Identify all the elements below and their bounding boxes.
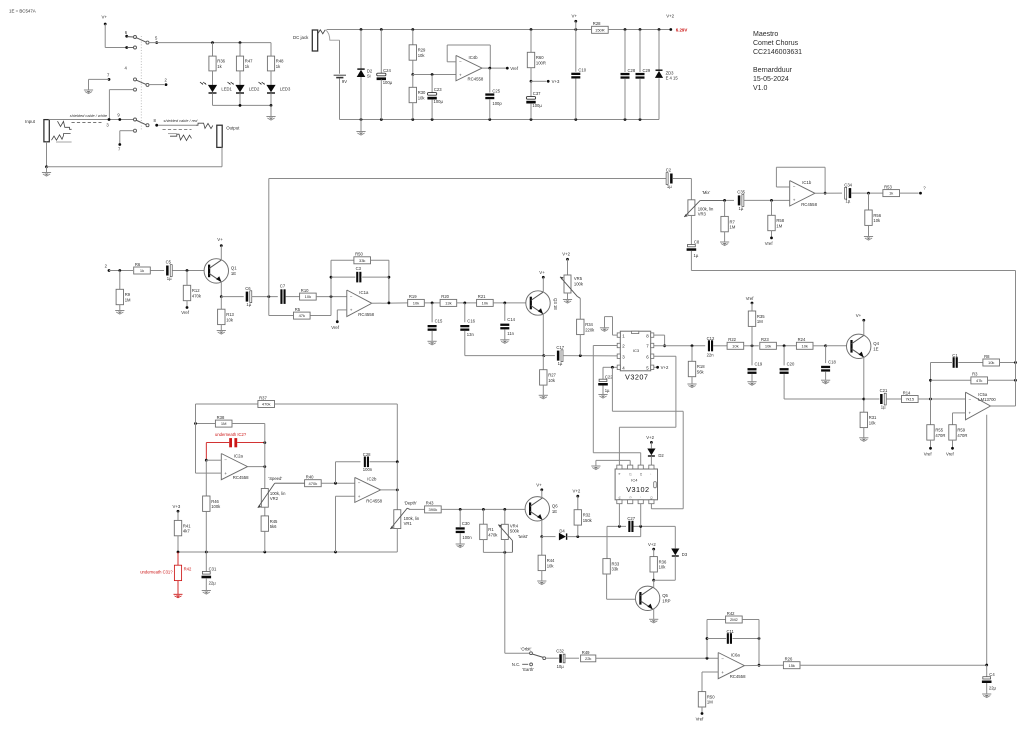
node ? (923, 185, 926, 190)
resistor R22 (727, 337, 744, 349)
wire feedback IC1b (776, 167, 826, 194)
svg-text:→: → (650, 473, 653, 476)
wire (608, 28, 672, 31)
resistor R31 (860, 412, 877, 438)
net V+ Q3 (539, 270, 545, 292)
capacitor C24 (377, 30, 393, 120)
svg-text:22k: 22k (585, 656, 591, 661)
ground (456, 544, 465, 548)
svg-text:9V: 9V (342, 79, 347, 84)
op-amp IC5a (966, 392, 991, 420)
wire pin2 clock (593, 346, 640, 466)
svg-text:100n: 100n (462, 535, 472, 540)
svg-text:+: + (721, 670, 724, 675)
svg-text:10k: 10k (548, 378, 556, 383)
wire fb up (330, 260, 333, 296)
node 8 (154, 118, 159, 126)
wire (886, 398, 901, 400)
ground (720, 242, 729, 246)
svg-text:1µ: 1µ (694, 253, 699, 258)
svg-text:+: + (969, 410, 972, 415)
jack J2 tip contact (196, 123, 213, 128)
ground (687, 384, 696, 388)
svg-text:+: + (350, 308, 353, 313)
resistor R3 (931, 372, 1017, 384)
svg-text:R19: R19 (409, 294, 417, 299)
svg-text:10k: 10k (547, 563, 555, 568)
switch SW1 pole 3 throw (134, 118, 137, 121)
transistor Q3 (526, 291, 558, 315)
label Mix (702, 190, 710, 195)
wire (316, 295, 347, 298)
resistor R19 (408, 294, 425, 306)
net Vref (696, 716, 705, 721)
svg-text:1µ: 1µ (167, 276, 172, 281)
ground (115, 311, 124, 315)
svg-text:V+2: V+2 (648, 542, 656, 547)
LED LED3 (259, 82, 291, 105)
diode D3 (654, 526, 688, 580)
svg-text:IC2b: IC2b (367, 477, 377, 482)
node V+3 (530, 79, 560, 84)
svg-text:Vref: Vref (331, 325, 340, 330)
svg-text:R10: R10 (301, 288, 309, 293)
svg-text:100n: 100n (363, 467, 373, 472)
svg-text:1k: 1k (140, 268, 144, 273)
ground (821, 380, 830, 384)
svg-text:Q6: Q6 (552, 504, 558, 509)
svg-text:10k: 10k (659, 565, 667, 570)
capacitor C28 supply (621, 30, 636, 120)
resistor R30 (409, 75, 426, 120)
svg-text:V+: V+ (856, 313, 862, 318)
wire + input (953, 413, 966, 425)
svg-text:1M: 1M (125, 297, 131, 302)
wire (396, 529, 398, 553)
capacitor C34 (844, 182, 852, 203)
IC4 pin stubs (617, 465, 654, 504)
wire (310, 297, 331, 316)
capacitor C15 (428, 303, 443, 341)
svg-text:100k: 100k (211, 504, 221, 509)
pot VR3 Mix (684, 200, 714, 217)
switch SW1 pole 1 lever (136, 37, 149, 44)
resistor R6 (134, 262, 151, 274)
wire (744, 344, 759, 347)
wire (546, 657, 559, 659)
resistor R59 (949, 425, 968, 450)
wire (371, 302, 408, 305)
svg-text:V+2: V+2 (666, 14, 674, 19)
resistor R28 (592, 21, 609, 33)
resistor R34 (577, 319, 596, 334)
svg-text:+: + (459, 72, 462, 77)
svg-text:10k: 10k (418, 95, 426, 100)
rail V+3 (177, 551, 398, 554)
wire (653, 580, 655, 619)
svg-text:RC4558: RC4558 (801, 202, 817, 207)
svg-text:IC6a: IC6a (731, 652, 741, 657)
wire pin4 node (603, 366, 617, 379)
svg-text:2M2: 2M2 (730, 617, 739, 622)
wire L2 gnd (596, 460, 630, 466)
svg-text:1µ: 1µ (246, 302, 251, 307)
svg-text:RC4558: RC4558 (730, 674, 746, 679)
net Vref (331, 325, 340, 330)
svg-text:LED3: LED3 (280, 86, 291, 91)
svg-text:1µ: 1µ (558, 361, 563, 366)
svg-text:CC2146003631: CC2146003631 (753, 49, 802, 56)
switch SW1 pole 2 throw 4 (125, 66, 137, 81)
capacitor C14 (500, 303, 515, 340)
ground (42, 167, 51, 176)
wire (483, 540, 512, 554)
svg-text:V+: V+ (217, 237, 223, 242)
svg-text:C28: C28 (628, 68, 636, 73)
wire (457, 302, 477, 305)
net V+3 lfo (173, 504, 181, 521)
svg-text:1M: 1M (776, 223, 782, 228)
svg-text:Vref: Vref (765, 241, 774, 246)
svg-text:R20: R20 (441, 294, 449, 299)
capacitor C37 (526, 81, 542, 119)
svg-text:V+2: V+2 (562, 251, 570, 256)
resistor R50 (331, 252, 389, 264)
svg-text:Si: Si (367, 74, 371, 79)
svg-text:C15: C15 (435, 319, 443, 324)
capacitor C10 (571, 30, 586, 120)
switch SW2 throw orbit (530, 652, 533, 655)
net V+2 R36b (648, 542, 656, 557)
svg-text:V+2: V+2 (661, 365, 669, 370)
svg-text:V+2: V+2 (646, 435, 654, 440)
wire (252, 295, 278, 298)
node (411, 73, 414, 76)
svg-text:R49: R49 (582, 650, 590, 655)
svg-text:C10: C10 (578, 68, 586, 73)
wire (388, 260, 391, 303)
svg-text:R24: R24 (798, 337, 806, 342)
wire IC2a out (248, 424, 267, 489)
svg-text:R3: R3 (972, 372, 978, 377)
ground red (174, 594, 183, 598)
svg-text:C12: C12 (707, 336, 715, 341)
switch SW1 pole 3 lever (136, 120, 149, 127)
net V+ Q6 (536, 482, 543, 497)
ground (649, 619, 658, 623)
wire (340, 78, 660, 121)
capacitor red underneath IC2 (206, 432, 266, 460)
ground (864, 237, 873, 241)
capacitor C3 (331, 266, 389, 282)
resistor R13 (218, 297, 235, 331)
svg-text:C24: C24 (383, 68, 391, 73)
wire vref+ (336, 310, 347, 323)
svg-text:R14: R14 (903, 390, 911, 395)
switch SW1 pole 2 lever (136, 80, 149, 87)
ground (539, 395, 548, 399)
svg-text:LM13700: LM13700 (978, 397, 996, 402)
svg-text:E 4 15: E 4 15 (666, 76, 679, 81)
jack J2 Output (217, 125, 240, 147)
resistor R20 (440, 294, 457, 306)
svg-text:7k15: 7k15 (905, 397, 914, 402)
ground (266, 105, 275, 120)
resistor R42b (707, 611, 759, 623)
wire (565, 657, 579, 659)
jack J1 Input (25, 119, 49, 142)
capacitor C25 (485, 68, 502, 119)
wire (220, 282, 223, 298)
switch SW1 pole 3 throw lower (134, 129, 137, 132)
svg-text:RC4558: RC4558 (468, 77, 484, 82)
ground (747, 382, 756, 386)
node 2 (amp input) (105, 264, 133, 272)
svg-text:V+: V+ (572, 14, 578, 19)
label Orbit (521, 647, 532, 652)
svg-text:C21: C21 (880, 388, 888, 393)
wire (109, 90, 133, 120)
wire (542, 536, 556, 538)
capacitor C2 (666, 168, 673, 189)
net V+2 R32 (573, 488, 581, 509)
svg-text:R38: R38 (217, 415, 225, 420)
svg-text:C27: C27 (627, 516, 635, 521)
ground (428, 341, 437, 345)
svg-text:1E: 1E (552, 509, 557, 514)
svg-text:C20: C20 (787, 362, 795, 367)
svg-text:D4: D4 (559, 529, 565, 534)
net Vref (946, 451, 955, 456)
net V+2 D2 (646, 435, 654, 449)
svg-text:15-05-2024: 15-05-2024 (753, 76, 789, 83)
switch SW1 pole 2 terminal 7 (107, 73, 110, 81)
jack J1 tip contact (58, 121, 72, 129)
svg-text:DC jack: DC jack (293, 35, 309, 40)
dashed shield red (163, 129, 192, 131)
svg-text:10k: 10k (482, 301, 488, 306)
zener ZD3 (655, 30, 678, 120)
svg-text:15k: 15k (788, 663, 794, 668)
power net V+ at switch (102, 15, 108, 26)
capacitor C20 (780, 346, 795, 374)
svg-text:−: − (224, 457, 227, 462)
svg-text:V1.0: V1.0 (753, 85, 768, 92)
IC IC3 V3207 body (620, 331, 650, 381)
wire (567, 526, 641, 538)
svg-text:−: − (350, 294, 353, 299)
capacitor C5 (166, 260, 173, 281)
wire clock loop A (612, 367, 683, 509)
capacitor C27 (607, 504, 675, 532)
svg-text:underneath IC2?: underneath IC2? (215, 432, 247, 437)
svg-text:G: G (628, 496, 632, 498)
svg-text:R6: R6 (135, 262, 141, 267)
resistor R14 (902, 390, 919, 402)
resistor R41 (174, 520, 191, 552)
capacitor C7 (280, 284, 286, 304)
wire (672, 179, 691, 200)
ground (202, 591, 211, 595)
svg-text:V+: V+ (536, 482, 542, 487)
net V+2 (666, 14, 674, 19)
capacitor C17 (544, 345, 565, 366)
resistor R53 (883, 184, 922, 196)
wire (493, 302, 531, 305)
svg-text:Q5: Q5 (662, 593, 668, 598)
LED LED2 (228, 82, 260, 105)
dashed shield white (72, 122, 102, 124)
svg-text:C30: C30 (462, 521, 470, 526)
svg-text:R42: R42 (727, 611, 735, 616)
svg-text:Vref: Vref (510, 66, 519, 71)
battery BT1 9V (334, 75, 348, 84)
resistor R32 (574, 510, 593, 537)
svg-text:100R: 100R (536, 60, 546, 65)
capacitor C1 (931, 353, 984, 368)
svg-text:47k: 47k (976, 378, 982, 383)
wire (800, 664, 988, 667)
svg-text:1k: 1k (889, 191, 893, 196)
wire (758, 620, 761, 667)
svg-text:10k: 10k (732, 343, 738, 348)
svg-text:10k: 10k (418, 53, 426, 58)
svg-text:Vref: Vref (181, 310, 190, 315)
svg-text:1µ: 1µ (846, 199, 851, 204)
resistor R36 (209, 43, 226, 85)
wire (640, 504, 642, 527)
svg-text:470k: 470k (488, 532, 498, 537)
wire IC2b out (381, 462, 399, 510)
wire (149, 41, 271, 44)
wire (815, 192, 842, 194)
svg-text:−: − (793, 184, 796, 189)
svg-text:13n: 13n (467, 332, 475, 337)
svg-text:V3207: V3207 (625, 373, 648, 382)
svg-text:‘Earth’: ‘Earth’ (522, 667, 534, 672)
svg-text:22µ: 22µ (209, 580, 217, 585)
svg-text:470R: 470R (957, 433, 967, 438)
svg-text:C6: C6 (245, 286, 251, 291)
wire (441, 508, 530, 511)
wire (713, 345, 727, 347)
wire pin8-7 (654, 335, 666, 347)
wire (542, 314, 545, 357)
svg-text:C28: C28 (363, 452, 371, 457)
op-amp IC2b (355, 477, 383, 504)
svg-text:10k: 10k (765, 343, 771, 348)
wire (89, 79, 110, 90)
svg-text:1µ: 1µ (881, 405, 886, 410)
capacitor C29 (636, 30, 651, 120)
svg-text:RC4558: RC4558 (358, 312, 374, 317)
svg-text:C5: C5 (166, 260, 172, 265)
svg-text:LED1: LED1 (221, 86, 232, 91)
svg-text:1µ: 1µ (739, 206, 744, 211)
label Earth (522, 667, 534, 672)
IC3 pin numbers (622, 333, 649, 370)
svg-text:+: + (224, 471, 227, 476)
ground (537, 581, 546, 585)
switch SW1 pole 1 throw (V+) (125, 46, 136, 49)
switch SW1 pole 2 throw lower (134, 88, 137, 91)
IC4 pin names (618, 473, 654, 500)
ground (600, 328, 609, 332)
svg-text:Cb: Cb (650, 496, 654, 500)
wire ground loop (45, 142, 222, 168)
resistor R23 (760, 337, 777, 349)
IC IC4 V3102 body (615, 469, 657, 500)
wire (851, 192, 883, 195)
label IC5a (978, 392, 996, 402)
node 5 (155, 36, 158, 44)
resistor R37 (196, 395, 398, 462)
svg-text:Vref: Vref (696, 716, 705, 721)
svg-text:Q1: Q1 (231, 266, 237, 271)
net V+ Q1 (217, 237, 223, 260)
svg-text:+: + (793, 198, 796, 203)
resistor R9 (116, 271, 131, 311)
svg-text:+: + (358, 494, 361, 499)
wire bias (986, 415, 988, 665)
svg-text:‘Speed’: ‘Speed’ (268, 476, 282, 481)
svg-text:47k: 47k (299, 313, 305, 318)
svg-text:Bernardduur: Bernardduur (753, 67, 793, 74)
wire IC6a out (744, 664, 783, 666)
switch SW1 pole 3 terminal 9 (117, 112, 120, 117)
svg-text:150k: 150k (583, 518, 593, 523)
wire (49, 118, 134, 121)
wire top rail (327, 28, 592, 31)
capacitor C23 (427, 75, 443, 120)
svg-text:C25: C25 (492, 88, 500, 93)
svg-text:500k: 500k (510, 529, 520, 534)
resistor R27 (540, 356, 557, 396)
switch SW1 pole 1 throw 6 (125, 30, 137, 39)
transistor Q4 (847, 334, 880, 358)
wire (918, 398, 965, 401)
capacitor C6 (221, 286, 252, 307)
svg-text:1M: 1M (730, 225, 736, 230)
net V+2 VR5 (562, 251, 570, 275)
wire fb up (706, 620, 709, 659)
wire pin1 gnd (605, 317, 618, 336)
wire bootstrap Q3 (465, 331, 544, 356)
net V+2 pin5 (654, 365, 669, 370)
wire (213, 104, 273, 107)
svg-text:C7: C7 (280, 284, 286, 289)
resistor R40 (305, 475, 322, 487)
resistor R55 (927, 399, 946, 450)
capacitor C32 (556, 649, 565, 670)
svg-text:5k6: 5k6 (270, 524, 277, 529)
svg-text:C29: C29 (643, 68, 651, 73)
ground (500, 340, 509, 344)
switch SW2 common (543, 657, 546, 660)
resistor R50b (698, 692, 715, 715)
svg-text:1µ: 1µ (667, 184, 672, 189)
svg-text:C2: C2 (666, 168, 672, 173)
svg-text:R43: R43 (426, 501, 434, 506)
capacitor C21 (864, 388, 888, 409)
wire (424, 302, 440, 305)
ground (217, 331, 226, 335)
svg-text:C1: C1 (952, 353, 958, 358)
ground (356, 120, 365, 136)
label shielded cable / white (70, 113, 108, 118)
svg-text:100µ: 100µ (532, 103, 542, 108)
wire (505, 652, 530, 654)
